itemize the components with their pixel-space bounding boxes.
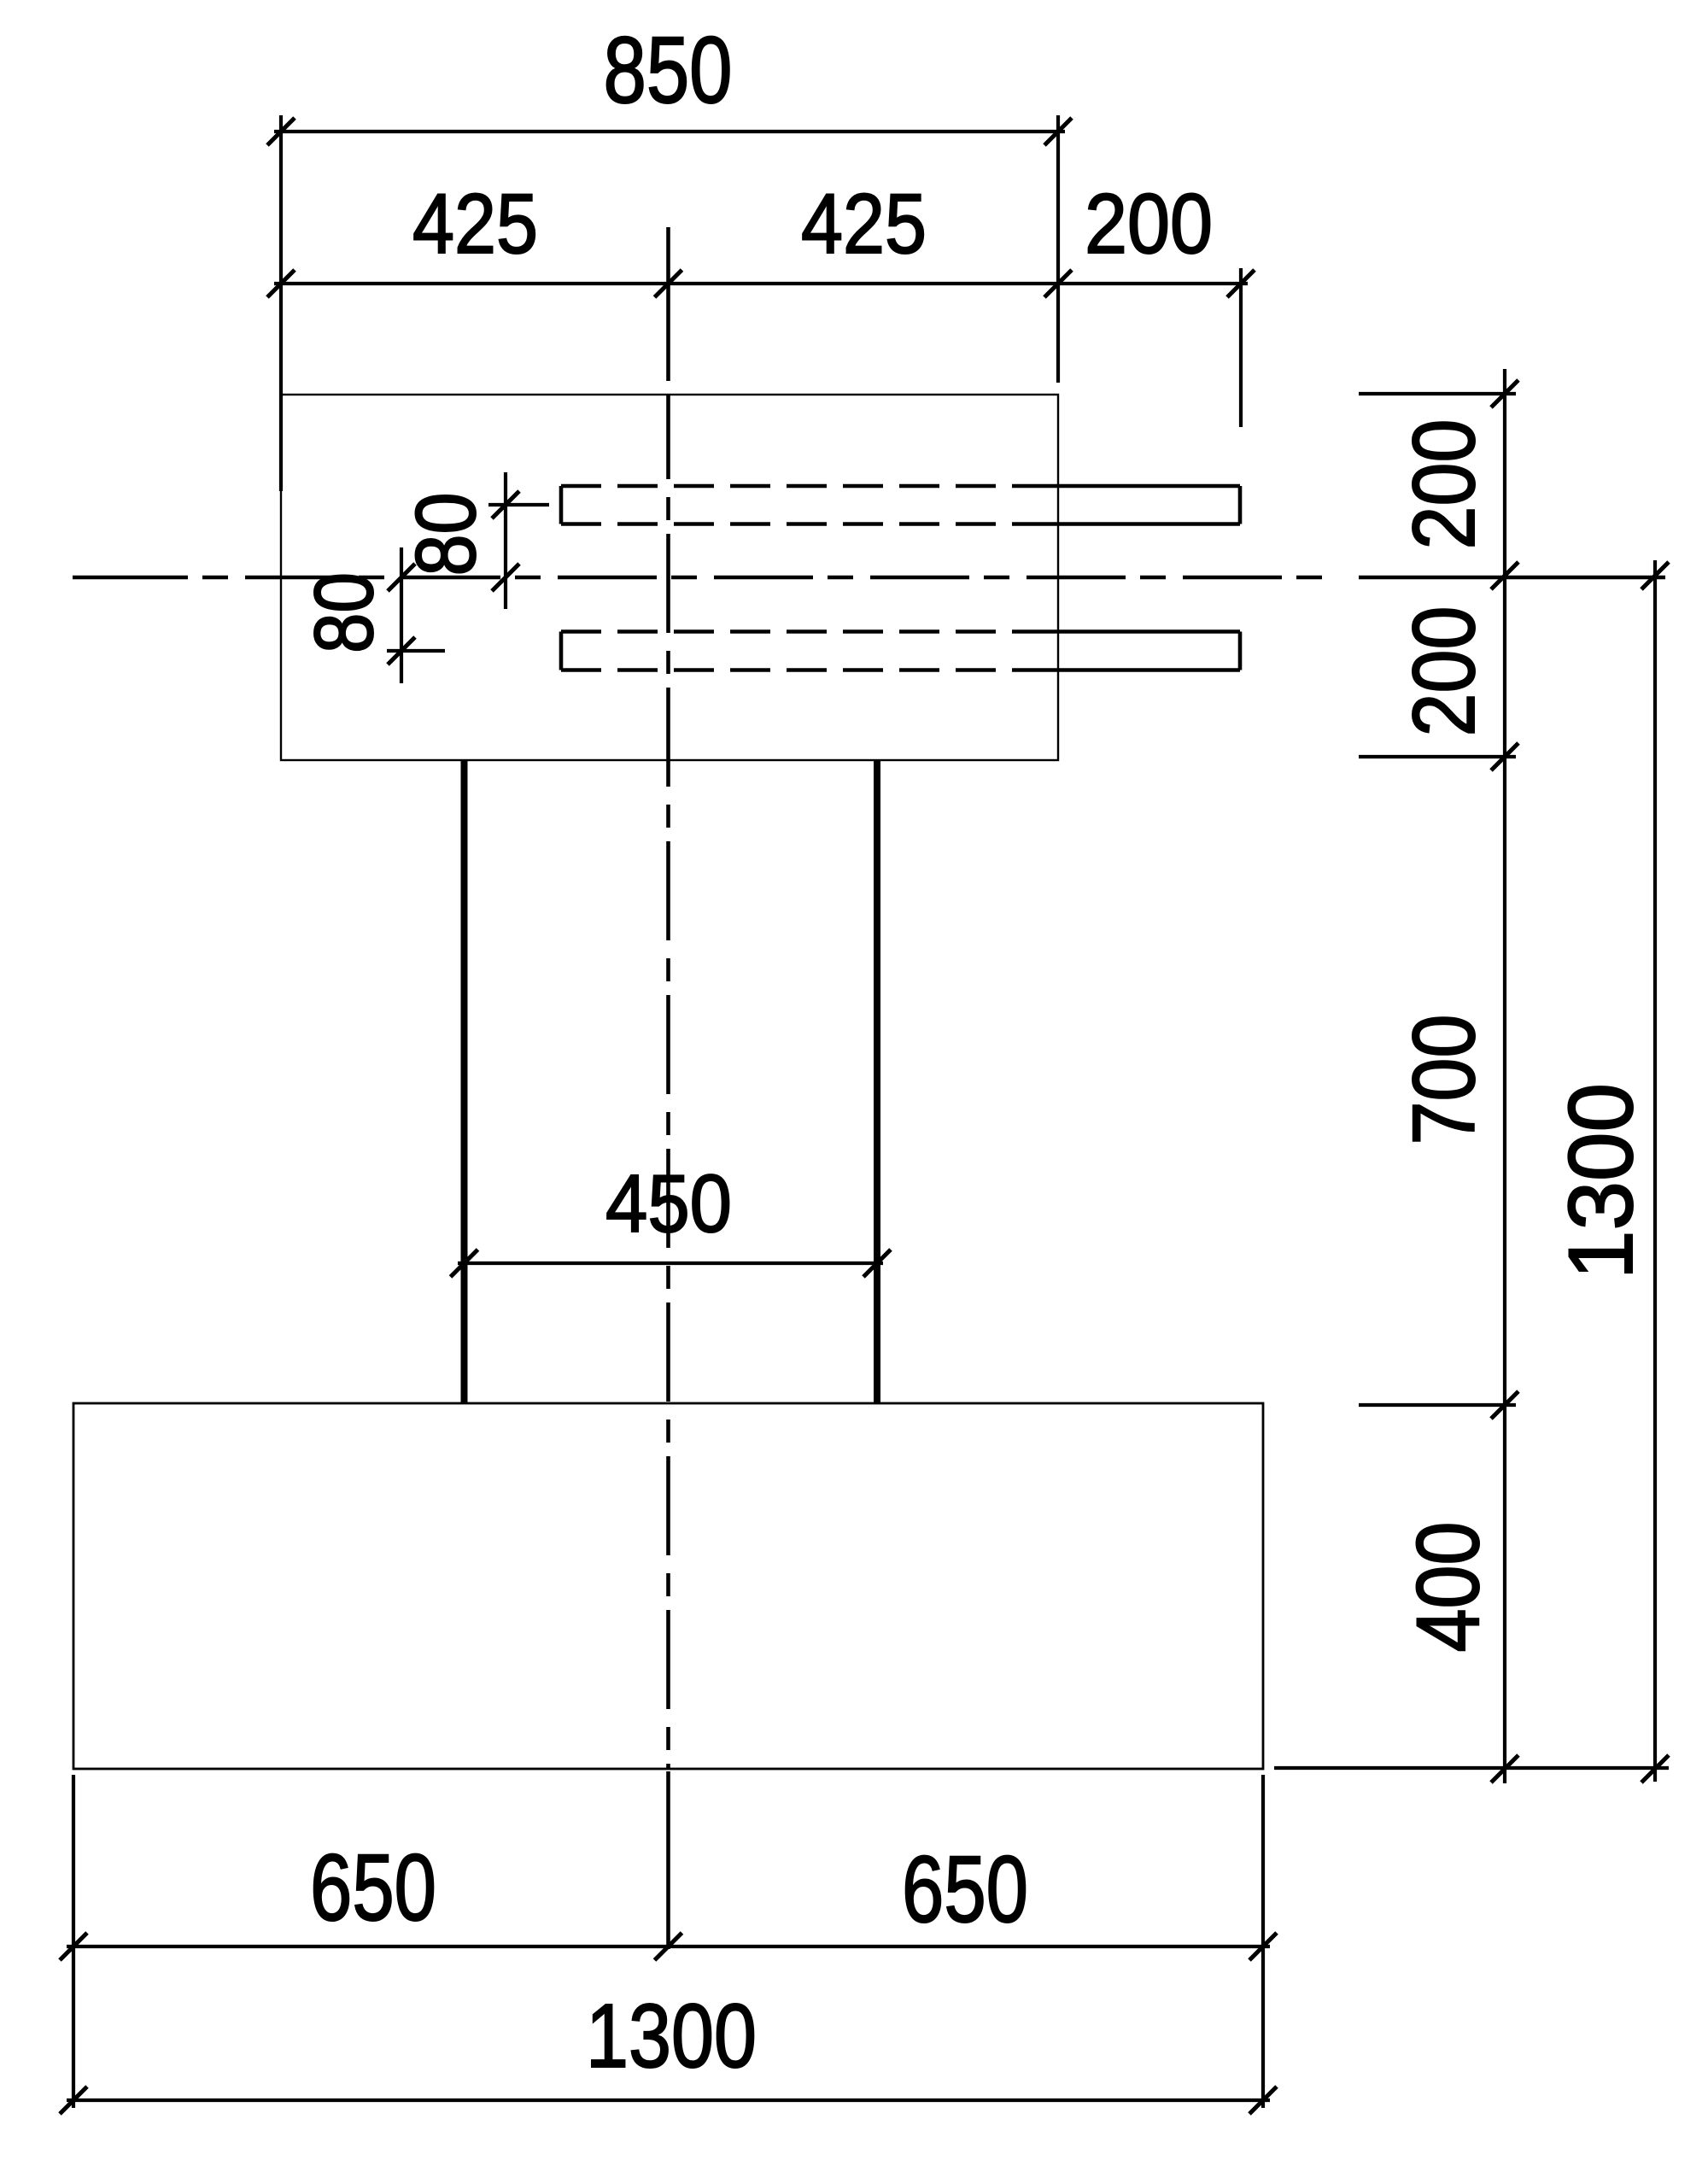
column right edge [874,760,880,1403]
svg-text:650: 650 [902,1837,1028,1942]
dim 425 tick left [267,270,295,297]
dim 450 tick right [863,1250,891,1277]
footing outline [73,1403,1263,1769]
dim 80 upper stub [488,503,549,506]
far right dim 1300 line [1653,560,1657,1782]
dim 200 extension [1239,268,1243,427]
top loading-stub block outline [281,395,1058,760]
dim 850 tick right [1044,118,1072,145]
horizontal centerline [73,576,1665,580]
svg-text:850: 850 [604,18,733,123]
right chain stub footing top [1359,1403,1516,1407]
dim 80 tick d [388,637,415,664]
column left edge [461,760,468,1403]
dim 80 lower line [400,547,403,683]
dim 425 tick middle [655,270,682,297]
dim 80 tick a [492,491,519,518]
dim 1300 bottom line [67,2099,1270,2102]
dim 200 tick right [1227,270,1255,297]
right chain tick y2071 [1491,1755,1518,1782]
svg-text:400: 400 [1399,1522,1498,1653]
right chain stub block bottom [1359,755,1516,758]
dim 80 lower stub [387,649,445,653]
svg-text:650: 650 [310,1835,436,1940]
dim 1300 bottom tick right [1249,2087,1277,2114]
svg-text:200: 200 [1085,176,1213,271]
svg-text:425: 425 [412,176,538,271]
dim 450 line [458,1261,883,1265]
right chain tick y1645 [1491,1391,1518,1419]
upper embedded bar (hidden dashed + exposed solid) [561,486,1240,524]
dim 80 tick c [388,564,415,591]
right chain tick y674 [1491,562,1518,589]
dim 650 tick middle [655,1933,682,1960]
dim 850 tick left [267,118,295,145]
right chain tick y461 [1491,380,1518,407]
dim 425/425/200 line [274,282,1248,285]
svg-text:450: 450 [605,1158,732,1250]
far right tick y2071 [1641,1755,1669,1782]
vertical centerline [666,227,670,1949]
dim 80 tick b [492,564,519,591]
right chain stub footing bottom [1274,1766,1669,1770]
right dim chain line [1503,369,1506,1783]
svg-text:80: 80 [398,493,493,577]
dim 850 extension left [279,115,283,491]
svg-text:200: 200 [1395,419,1493,550]
dim 650 tick left [60,1933,87,1960]
bottom extension right [1261,1775,1265,2108]
dim 425 tick right [1044,270,1072,297]
dim 650 tick right [1249,1933,1277,1960]
lower embedded bar (hidden dashed + exposed solid) [561,632,1240,670]
far right tick y674 [1641,562,1669,589]
dim 80 upper line [504,472,507,609]
dim 850 line [274,130,1065,133]
right chain tick y886 [1491,743,1518,770]
bottom extension left [72,1775,75,2108]
svg-text:80: 80 [297,572,390,653]
svg-text:700: 700 [1395,1015,1493,1145]
dim 650 line [67,1945,1270,1948]
dim 1300 bottom tick left [60,2087,87,2114]
svg-text:1300: 1300 [1549,1083,1652,1279]
right chain stub top [1359,392,1516,395]
dim 850 extension right [1056,115,1060,383]
svg-text:200: 200 [1395,606,1493,737]
svg-text:1300: 1300 [586,1986,757,2087]
dim 450 tick left [451,1250,478,1277]
svg-text:425: 425 [801,176,927,271]
